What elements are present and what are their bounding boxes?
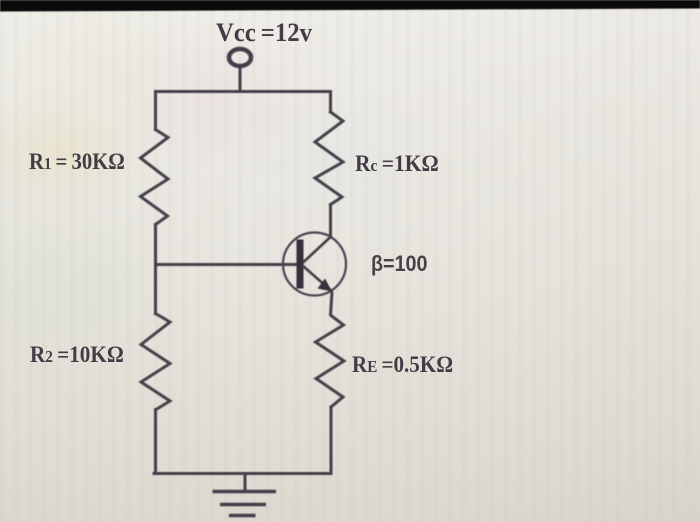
wire left middle segment [154,225,157,314]
wire emitter to RE [331,292,333,316]
label R2=10K ohm [30,342,124,368]
wire base [156,263,298,266]
label Vcc=12v [216,18,312,48]
label Rc=1K ohm [355,151,439,177]
resistor R2 [141,314,170,410]
wire left bottom segment [154,410,157,474]
label R1=30K ohm [29,149,125,175]
wire collector [329,205,332,238]
label beta=100 [371,251,427,277]
label RE=0.5K ohm [352,352,453,378]
resistor Rc [315,112,343,205]
wire Vcc stem [239,66,242,92]
ground stem [244,474,247,492]
Vcc terminal circle [229,49,251,66]
wire emitter bottom segment [330,407,333,474]
resistor R1 [141,130,169,225]
wire top rail [156,92,331,130]
top black bar [0,0,700,12]
transistor Q1 [283,233,346,296]
wire bottom rail [154,472,331,475]
ground [213,492,277,516]
resistor RE [316,316,345,408]
